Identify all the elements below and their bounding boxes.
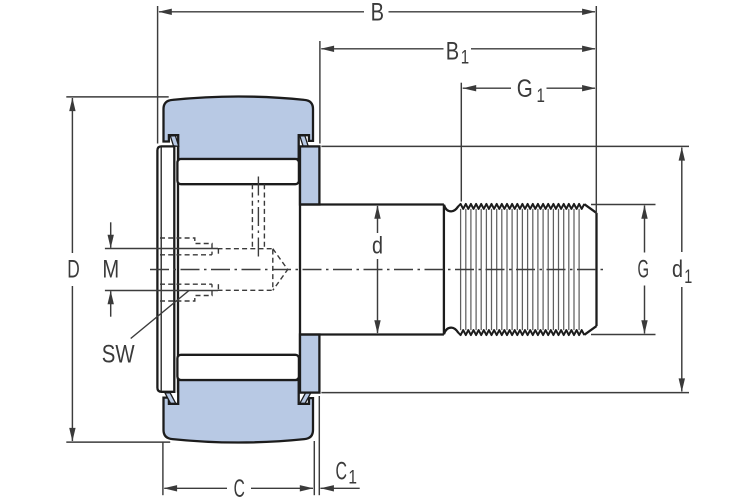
svg-text:1: 1 xyxy=(348,468,357,489)
svg-text:1: 1 xyxy=(684,267,692,288)
thread root lines xyxy=(461,209,579,330)
svg-text:d: d xyxy=(672,256,683,283)
seal top-right xyxy=(300,136,308,146)
svg-text:G: G xyxy=(638,255,650,283)
thread crest zigzag top xyxy=(458,204,584,209)
hex socket hidden outline xyxy=(160,238,212,301)
relief groove bottom curve xyxy=(444,328,458,335)
dim d1 xyxy=(321,146,692,392)
thread end chamfer top xyxy=(584,204,596,213)
stud shank bottom line xyxy=(300,333,444,335)
stud end face xyxy=(595,213,597,326)
stud head left face line xyxy=(177,146,179,392)
dim B1 xyxy=(320,37,596,143)
label SW with leader xyxy=(102,291,189,369)
needle roller band bottom xyxy=(177,355,299,380)
svg-text:SW: SW xyxy=(102,340,135,368)
svg-text:C: C xyxy=(336,457,348,485)
washer inner edge line xyxy=(160,148,162,391)
dim C xyxy=(163,441,314,503)
dim C1 xyxy=(319,396,359,495)
outer ring lower half xyxy=(164,380,314,443)
dim B xyxy=(158,0,597,214)
svg-text:1: 1 xyxy=(461,48,469,69)
stud head right face line xyxy=(299,146,301,392)
svg-text:B: B xyxy=(446,37,459,65)
thread end chamfer bottom xyxy=(584,326,596,335)
dim D xyxy=(66,97,170,442)
seal top-left xyxy=(170,136,178,146)
stud flange bottom (blue) xyxy=(300,335,319,393)
svg-text:G: G xyxy=(517,75,533,103)
svg-text:1: 1 xyxy=(537,86,545,107)
dim M xyxy=(102,222,218,316)
stud shank top line xyxy=(300,203,444,205)
dim G1 xyxy=(461,75,595,201)
svg-text:B: B xyxy=(371,0,384,27)
svg-text:d: d xyxy=(372,232,383,259)
shank end face at relief groove xyxy=(443,205,445,335)
needle roller band top xyxy=(177,159,299,184)
stud flange top (blue) xyxy=(300,146,319,204)
dim G xyxy=(591,205,656,335)
threaded hole M hidden outline xyxy=(160,249,288,291)
thread crest zigzag bottom xyxy=(458,330,584,335)
relief groove top curve xyxy=(444,205,458,212)
lubrication hole centerline xyxy=(257,177,259,258)
lubrication hole hidden lines xyxy=(252,184,264,248)
dim d xyxy=(372,205,383,333)
seal bottom-right xyxy=(300,393,311,404)
svg-text:C: C xyxy=(234,475,245,503)
seal bottom-left xyxy=(165,393,176,404)
svg-text:D: D xyxy=(67,256,80,284)
outer ring upper half xyxy=(164,96,314,159)
svg-text:M: M xyxy=(102,256,119,284)
side washer plate xyxy=(157,146,174,391)
centerline horizontal axis xyxy=(150,269,604,271)
